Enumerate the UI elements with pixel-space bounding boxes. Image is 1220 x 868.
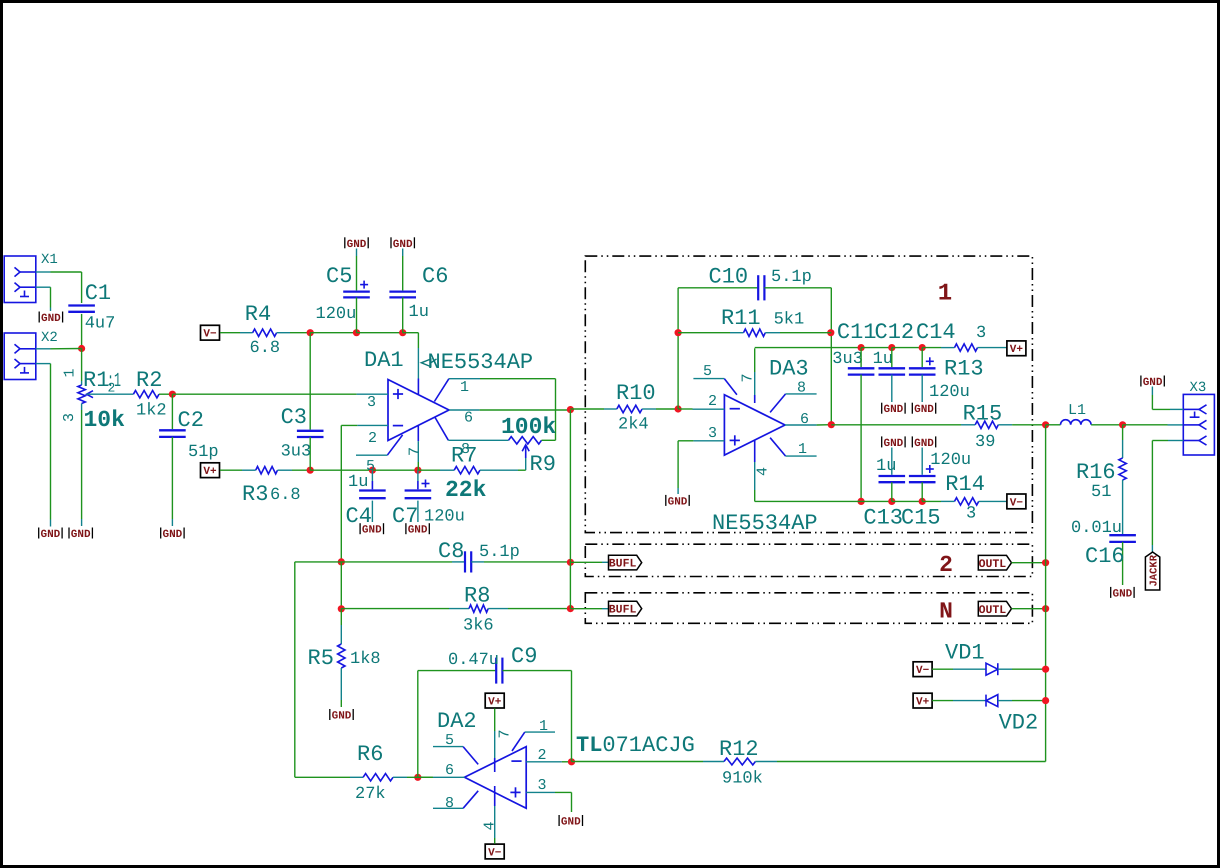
svg-text:3k6: 3k6: [463, 617, 494, 636]
svg-text:1k2: 1k2: [136, 402, 167, 421]
svg-text:3: 3: [966, 505, 976, 524]
svg-text:4u7: 4u7: [85, 315, 116, 334]
svg-text:39: 39: [975, 433, 995, 452]
svg-text:R5: R5: [308, 646, 334, 671]
svg-text:GND: GND: [914, 438, 934, 450]
svg-text:10k: 10k: [84, 407, 126, 433]
svg-text:R7: R7: [451, 444, 477, 469]
svg-text:JACKR: JACKR: [1149, 554, 1161, 586]
svg-text:1u: 1u: [409, 303, 429, 322]
svg-text:R2: R2: [136, 368, 162, 393]
svg-text:1: 1: [460, 379, 469, 396]
svg-text:C5: C5: [326, 264, 352, 289]
svg-text:GND: GND: [561, 817, 581, 829]
svg-text:100k: 100k: [501, 414, 556, 440]
svg-text:TL: TL: [576, 733, 602, 758]
svg-text:2k4: 2k4: [618, 416, 649, 435]
svg-text:GND: GND: [883, 404, 903, 416]
svg-text:R1: R1: [83, 368, 109, 393]
svg-text:5: 5: [703, 363, 712, 380]
svg-text:6.8: 6.8: [250, 339, 281, 358]
svg-text:5: 5: [445, 732, 454, 749]
svg-text:C8: C8: [438, 539, 464, 564]
svg-text:C13: C13: [863, 506, 903, 531]
svg-text:5.1p: 5.1p: [771, 268, 812, 287]
svg-text:2: 2: [538, 747, 547, 764]
svg-text:OUTL: OUTL: [979, 558, 1007, 571]
svg-text:V−: V−: [488, 847, 502, 859]
svg-text:1u: 1u: [873, 350, 893, 369]
svg-text:7: 7: [740, 373, 757, 382]
svg-text:GND: GND: [1143, 377, 1163, 389]
svg-text:NE5534AP: NE5534AP: [712, 511, 818, 536]
svg-text:1: 1: [798, 441, 807, 458]
svg-text:GND: GND: [1112, 588, 1132, 600]
svg-text:DA3: DA3: [769, 357, 809, 382]
svg-text:51: 51: [1091, 483, 1111, 502]
svg-text:1u: 1u: [348, 473, 368, 492]
svg-text:5k1: 5k1: [774, 311, 805, 330]
svg-text:V+: V+: [1010, 344, 1024, 356]
svg-text:V−: V−: [1010, 497, 1024, 509]
svg-text:C3: C3: [281, 405, 307, 430]
svg-text:R15: R15: [963, 402, 1003, 427]
svg-text:C14: C14: [916, 320, 956, 345]
svg-text:R12: R12: [719, 737, 759, 762]
svg-text:C6: C6: [422, 264, 448, 289]
svg-text:6.8: 6.8: [270, 486, 301, 505]
svg-text:N: N: [939, 598, 953, 624]
svg-text:R11: R11: [721, 306, 761, 331]
svg-text:DA1: DA1: [364, 348, 404, 373]
svg-text:GND: GND: [668, 496, 688, 508]
svg-text:4: 4: [755, 467, 772, 476]
svg-text:X3: X3: [1190, 380, 1207, 396]
svg-text:0.01u: 0.01u: [1071, 519, 1122, 538]
svg-text:120u: 120u: [316, 305, 357, 324]
svg-text:8: 8: [445, 795, 454, 812]
svg-text:4: 4: [481, 821, 498, 830]
svg-text:C11: C11: [837, 320, 877, 345]
svg-text:1: 1: [539, 718, 548, 735]
svg-text:R9: R9: [530, 452, 556, 477]
svg-text:910k: 910k: [722, 770, 763, 789]
svg-text:C2: C2: [178, 408, 204, 433]
svg-text:120u: 120u: [424, 508, 465, 527]
svg-text:1: 1: [938, 281, 952, 308]
svg-text:GND: GND: [71, 529, 91, 541]
svg-text:V−: V−: [203, 329, 217, 341]
svg-text:3u3: 3u3: [832, 350, 863, 369]
svg-text:3: 3: [976, 324, 986, 343]
svg-text:C4: C4: [346, 504, 372, 529]
svg-text:BUFL: BUFL: [609, 558, 637, 571]
svg-text:120u: 120u: [930, 451, 971, 470]
svg-text:51p: 51p: [188, 443, 219, 462]
svg-text:GND: GND: [332, 711, 352, 723]
svg-text:R14: R14: [945, 472, 985, 497]
svg-text:VD2: VD2: [999, 711, 1039, 736]
svg-text:GND: GND: [41, 313, 61, 325]
svg-text:C1: C1: [85, 281, 111, 306]
svg-text:GND: GND: [883, 438, 903, 450]
svg-text:VD1: VD1: [945, 641, 985, 666]
svg-text:X2: X2: [41, 330, 58, 346]
svg-text:C12: C12: [875, 320, 915, 345]
svg-text:3: 3: [61, 413, 78, 422]
svg-text:1u: 1u: [876, 457, 896, 476]
svg-text:GND: GND: [914, 404, 934, 416]
svg-text:R13: R13: [944, 357, 984, 382]
svg-text:R16: R16: [1076, 460, 1116, 485]
svg-text:6: 6: [464, 410, 473, 427]
svg-text:120u: 120u: [929, 383, 970, 402]
svg-text:GND: GND: [40, 529, 60, 541]
svg-text:071ACJG: 071ACJG: [602, 733, 694, 758]
svg-text:2: 2: [708, 393, 717, 410]
svg-text:2: 2: [108, 381, 116, 396]
svg-text:3u3: 3u3: [281, 443, 312, 462]
svg-text:3: 3: [538, 777, 547, 794]
svg-text:2: 2: [939, 552, 953, 578]
svg-text:NE5534AP: NE5534AP: [428, 350, 534, 375]
svg-text:R8: R8: [464, 584, 490, 609]
svg-text:6: 6: [445, 762, 454, 779]
svg-text:R6: R6: [357, 742, 383, 767]
svg-text:C15: C15: [901, 506, 941, 531]
svg-text:5.1p: 5.1p: [479, 543, 520, 562]
svg-text:R4: R4: [245, 302, 271, 327]
svg-text:3: 3: [367, 394, 376, 411]
svg-text:27k: 27k: [355, 785, 386, 804]
svg-text:DA2: DA2: [437, 709, 477, 734]
svg-text:R3: R3: [242, 482, 268, 507]
svg-text:V−: V−: [916, 665, 930, 677]
svg-text:V+: V+: [488, 697, 502, 709]
svg-text:8: 8: [797, 380, 806, 397]
svg-text:1k8: 1k8: [350, 650, 381, 669]
svg-text:OUTL: OUTL: [979, 604, 1007, 617]
svg-text:0.47u: 0.47u: [448, 651, 499, 670]
svg-text:C16: C16: [1085, 544, 1125, 569]
svg-text:6: 6: [800, 411, 809, 428]
svg-text:R10: R10: [616, 381, 656, 406]
svg-text:1: 1: [62, 368, 79, 377]
svg-text:L1: L1: [1068, 402, 1086, 419]
svg-text:22k: 22k: [445, 477, 487, 503]
svg-text:BUFL: BUFL: [609, 604, 637, 617]
svg-text:V+: V+: [203, 466, 217, 478]
svg-text:V+: V+: [916, 697, 930, 709]
svg-text:7: 7: [406, 447, 423, 456]
svg-text:GND: GND: [162, 529, 182, 541]
svg-text:7: 7: [497, 729, 514, 738]
svg-text:2: 2: [368, 430, 377, 447]
svg-text:X1: X1: [41, 252, 58, 268]
svg-text:C9: C9: [511, 644, 537, 669]
svg-text:C7: C7: [392, 504, 418, 529]
svg-text:C10: C10: [709, 265, 749, 290]
svg-text:3: 3: [708, 425, 717, 442]
